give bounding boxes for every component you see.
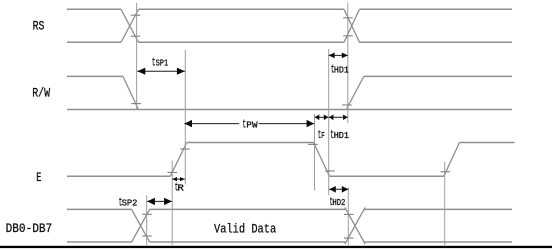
node RS crossover X2: [344, 9, 360, 42]
tick E fall top: [308, 143, 318, 145]
svg-text:SP2: SP2: [122, 198, 138, 208]
wire R/W rising edge: [346, 76, 364, 109]
dimension tSP2 arrow: [147, 198, 172, 205]
dimension tHD2 arrow: [329, 186, 348, 193]
node reference line V7 upper (hold ref): [347, 3, 349, 124]
wire E falling edge: [314, 143, 330, 177]
tick RS X1 upper: [131, 14, 141, 16]
svg-text:PW: PW: [246, 121, 258, 131]
value label tHD1 top: [331, 63, 349, 77]
wire E high segment: [187, 142, 314, 144]
tick R/W rise: [342, 104, 352, 106]
node reference line V6 (E fall base): [328, 49, 330, 195]
tick DB X2 lower: [344, 237, 354, 239]
value label tR: [175, 181, 185, 195]
wire R/W high segment: [67, 75, 123, 77]
node reference line V8 (E rise 2 base): [444, 162, 446, 245]
wire DB high rail: [67, 208, 512, 210]
node reference line V7 lower (hold ref): [347, 188, 349, 246]
tick E rise base: [167, 171, 177, 173]
node reference line V3 (E rise base): [171, 161, 173, 246]
svg-text:SP1: SP1: [156, 58, 168, 68]
bottom border bar: [0, 246, 552, 248]
node reference line V4 (DB valid): [146, 196, 148, 246]
svg-text:HD1: HD1: [334, 66, 349, 76]
svg-text:RS: RS: [33, 18, 45, 33]
wire E rising edge 1: [170, 143, 187, 177]
node RS crossover X1: [121, 9, 139, 42]
node DB crossover X2: [345, 207, 365, 244]
value label tSP1: [152, 55, 168, 69]
node reference line V5 (E fall top): [314, 114, 316, 191]
svg-text:R/W: R/W: [32, 85, 50, 100]
dimension tSP1 arrow: [137, 68, 185, 75]
svg-text:E: E: [36, 170, 41, 185]
svg-text:DB0-DB7: DB0-DB7: [6, 221, 53, 236]
value label tHD2: [330, 195, 346, 209]
wire RS high rail: [67, 8, 512, 10]
tick RS X2 upper: [343, 17, 353, 19]
wire DB low rail: [67, 241, 512, 243]
value label tSP2: [119, 195, 138, 209]
svg-text:R: R: [177, 184, 184, 194]
wire RS low rail: [67, 41, 512, 43]
wire R/W high segment 2: [364, 75, 512, 77]
wire E low segment 2: [330, 175, 444, 177]
tick DB X1 lower: [142, 235, 152, 237]
svg-text:F: F: [321, 131, 325, 141]
wire E high segment 2: [460, 142, 515, 144]
node DB crossover X1: [132, 209, 150, 242]
wire R/W low rail: [67, 109, 512, 111]
tick E fall base: [325, 170, 335, 172]
dimension tF arrow: [315, 115, 329, 121]
node reference line V2 (E rise top): [184, 50, 186, 185]
wire E rising edge 2: [444, 143, 460, 177]
dimension tR arrow: [172, 177, 185, 181]
tick E rise top: [180, 148, 190, 150]
value label tPW: [243, 118, 259, 132]
wire E low segment 1: [67, 175, 170, 177]
tick RS X2 lower: [343, 35, 353, 37]
svg-text:Valid Data: Valid Data: [214, 222, 276, 237]
tick DB X2 upper: [344, 213, 354, 215]
wire R/W falling edge: [123, 76, 138, 109]
tick RS X1 lower: [131, 35, 141, 37]
value label tF: [318, 128, 325, 142]
value label tHD1 lower: [330, 128, 349, 142]
dimension tPW arrow: [184, 120, 314, 127]
svg-text:HD1: HD1: [334, 131, 349, 141]
svg-text:HD2: HD2: [332, 198, 345, 208]
tick E rise 2 base: [440, 171, 450, 173]
node reference line V1 (RS valid): [136, 3, 138, 110]
dimension tHD1 lower arrow: [329, 115, 348, 121]
dimension tHD1 top arrow: [329, 53, 348, 59]
tick R/W fall: [131, 103, 141, 105]
tick DB X1 upper: [142, 213, 152, 215]
